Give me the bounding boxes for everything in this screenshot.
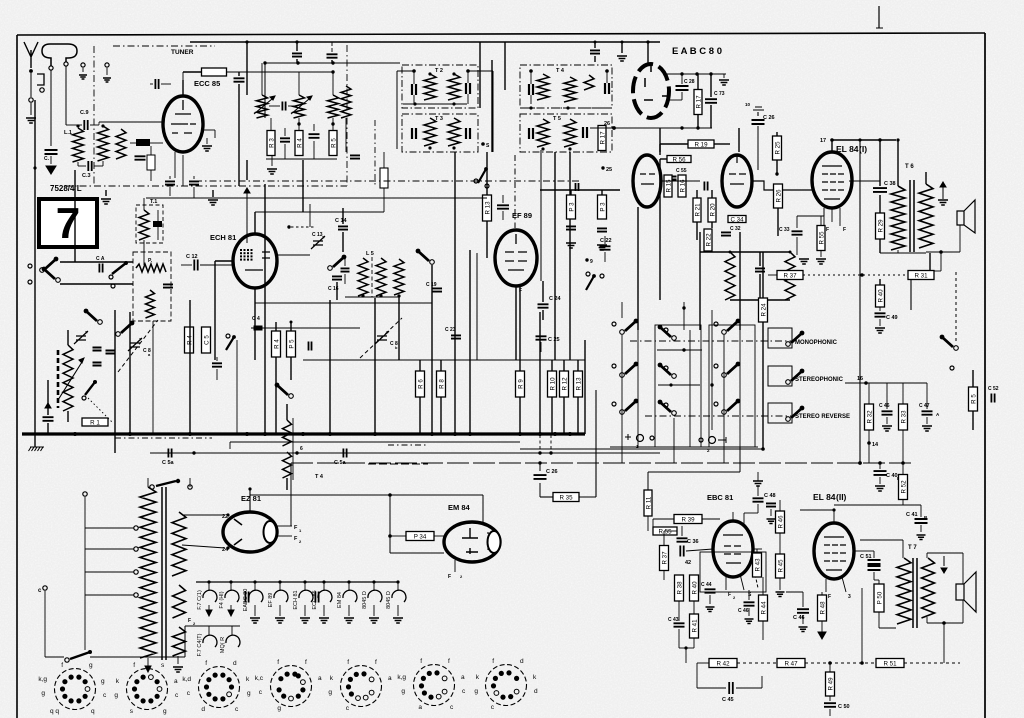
svg-text:R 48: R 48 — [820, 601, 827, 615]
svg-text:16: 16 — [857, 376, 863, 382]
wire mid down — [345, 118, 347, 152]
switch mid 230 — [226, 337, 234, 350]
resistor R.17 — [694, 90, 702, 115]
resistor R.48 — [818, 595, 827, 621]
ground C40B — [875, 486, 885, 491]
svg-text:R 39: R 39 — [681, 516, 695, 523]
svg-text:R 52: R 52 — [901, 480, 908, 494]
junction bus x455 — [453, 432, 457, 436]
capacitor C.34 — [728, 216, 746, 223]
resistor R.44 — [759, 595, 768, 621]
svg-text:C 5a: C 5a — [334, 460, 347, 466]
svg-text:f: f — [61, 662, 63, 669]
resistor R.41 — [690, 614, 699, 638]
wire v390 — [389, 495, 391, 553]
wire ta top — [659, 128, 661, 152]
tap rail left — [84, 497, 86, 650]
junction bus x247 — [245, 432, 249, 436]
svg-text:R 25: R 25 — [775, 141, 782, 155]
svg-text:R 6: R 6 — [418, 379, 425, 389]
svg-text:C A: C A — [96, 256, 105, 262]
capacitor C.11 — [280, 138, 290, 141]
svg-text:R 9: R 9 — [518, 379, 525, 389]
svg-text:C 19: C 19 — [426, 282, 437, 288]
svg-text:R 20: R 20 — [710, 203, 717, 217]
svg-text:R 55: R 55 — [658, 528, 672, 535]
junction — [33, 166, 36, 169]
wire ECC85 right — [201, 129, 215, 131]
wire tb top — [738, 128, 740, 152]
wire v505 — [504, 42, 506, 90]
capacitor in box — [163, 284, 173, 287]
svg-text:R 8: R 8 — [439, 379, 446, 389]
svg-text:F: F — [728, 592, 731, 598]
svg-text:EM 84: EM 84 — [448, 503, 471, 512]
switch matrix col1 — [620, 330, 625, 335]
tube ECC85 — [163, 96, 203, 152]
svg-text:C 33: C 33 — [779, 227, 790, 233]
resistor under T.3 — [380, 168, 388, 188]
ground R3 — [271, 156, 273, 166]
switch band 1 — [40, 268, 45, 273]
svg-text:26: 26 — [604, 121, 610, 127]
wire v700 — [699, 232, 701, 330]
svg-text:d: d — [534, 688, 538, 695]
svg-text:C 48: C 48 — [764, 493, 776, 499]
capacitor C.4a — [254, 327, 263, 330]
svg-text:STEREOPHONIC: STEREOPHONIC — [795, 377, 844, 383]
wire v130 — [129, 312, 131, 433]
svg-text:R 4: R 4 — [274, 339, 281, 349]
tube EM84 — [444, 522, 500, 562]
capacitor C.35 — [497, 205, 509, 208]
wire ebc bottom — [685, 648, 687, 663]
svg-text:k,g: k,g — [38, 676, 47, 683]
resistor R.22v — [704, 229, 712, 251]
long wire y495 — [250, 494, 483, 496]
wire t3 down2 — [383, 188, 385, 212]
wire v237 — [236, 340, 238, 433]
svg-text:EL 84: EL 84 — [813, 492, 836, 502]
wire r4 p5 — [275, 322, 277, 331]
svg-text:R 17: R 17 — [696, 95, 703, 109]
el84ii pins — [825, 579, 827, 592]
artifact bar — [876, 27, 883, 29]
resistor P.50 — [874, 584, 884, 612]
svg-text:C 52: C 52 — [988, 386, 999, 392]
svg-text:C.9: C.9 — [80, 110, 89, 116]
junction bus x570 — [568, 432, 572, 436]
ground p3a — [566, 243, 576, 248]
tube socket 4 — [255, 659, 322, 712]
coil osc var 2 — [294, 95, 305, 118]
wire t1 up — [143, 198, 145, 210]
resistor R.37b — [660, 546, 669, 571]
capacitor C.45 — [729, 682, 733, 694]
svg-text:R 26: R 26 — [776, 189, 783, 203]
dash v551 — [550, 435, 552, 453]
wire y463 left drop — [290, 463, 292, 526]
Q symbol right — [699, 438, 703, 442]
wire L5b top — [700, 251, 790, 253]
svg-text:9: 9 — [590, 259, 593, 265]
svg-text:q q: q q — [50, 708, 59, 715]
switch S mid — [328, 266, 333, 271]
wire EABC80 top — [647, 42, 649, 64]
tube EL84 II — [814, 523, 854, 579]
capacitor C.19 — [432, 288, 442, 291]
ground C46r — [882, 426, 892, 431]
matrix box 2 — [709, 325, 755, 447]
ground mid — [101, 199, 111, 204]
svg-text:R 45: R 45 — [778, 559, 785, 573]
tube socket 5 — [328, 659, 392, 712]
wire y464 dash — [368, 463, 428, 465]
tap 3 — [134, 570, 138, 574]
capacitor C.22 — [600, 246, 611, 249]
wire ebc left — [653, 518, 674, 520]
wire p3 tops — [570, 190, 572, 195]
T.2 capacitor right — [466, 83, 470, 94]
variable capacitor C.8a — [128, 338, 142, 351]
resistor R.26 — [775, 172, 778, 175]
tube EABC80 — [633, 64, 669, 118]
ground bus main — [22, 432, 585, 435]
wire L1 to tube — [98, 122, 100, 125]
resistor R.46 — [776, 511, 785, 533]
label 25 — [601, 166, 604, 169]
svg-text:g: g — [474, 688, 478, 695]
transformer T.7 primary — [897, 558, 911, 624]
svg-text:R 24: R 24 — [761, 303, 768, 317]
T.2 capacitor left — [412, 84, 416, 95]
capacitor C.27t — [590, 50, 600, 53]
svg-text:ECC 85: ECC 85 — [194, 79, 220, 88]
power transformer secondary HT — [172, 512, 186, 576]
pilot lamp 9 8045 D — [397, 582, 399, 591]
svg-text:a: a — [318, 675, 322, 682]
svg-text:R 44: R 44 — [761, 601, 768, 615]
tube socket 6 — [397, 658, 466, 711]
wire eabc y128 — [590, 127, 712, 129]
svg-text:L 5: L 5 — [366, 251, 374, 257]
tube EABC80 triode a — [633, 155, 661, 207]
wire v303 — [302, 160, 304, 212]
node S — [481, 142, 485, 146]
bus line 4 — [520, 448, 763, 450]
junction bus x520 — [518, 432, 522, 436]
cap C.7 top — [327, 54, 338, 57]
wire v480 — [479, 42, 481, 108]
coil L5b right — [785, 252, 795, 300]
second row lamp 1 — [208, 626, 210, 635]
border left — [16, 35, 18, 718]
wire c14 top — [342, 208, 344, 224]
IF transformer T.2 — [402, 65, 478, 108]
resistor P.5 — [287, 331, 296, 357]
svg-text:R 29: R 29 — [878, 219, 885, 233]
svg-text:g: g — [101, 678, 105, 685]
pilot lamp 4 EF 89 — [279, 582, 281, 591]
wire v860 long — [859, 140, 861, 463]
wire right vert long — [984, 33, 986, 718]
coil L5b left — [725, 252, 735, 300]
osc cap cluster — [93, 348, 102, 351]
wire v310 — [309, 204, 311, 227]
page box 7 — [39, 199, 97, 247]
resistor R.45 — [776, 554, 785, 578]
wire v432 — [431, 300, 433, 433]
dotted v right — [955, 272, 957, 344]
svg-text:R 19: R 19 — [694, 141, 708, 148]
svg-text:F: F — [828, 594, 831, 600]
wire v375 — [374, 298, 376, 433]
svg-text:ECH 81: ECH 81 — [293, 590, 299, 609]
capacitor C.44 — [705, 589, 716, 592]
resistor R.25 — [773, 136, 782, 160]
junction bus x375 — [373, 432, 377, 436]
capacitor C.1 — [45, 150, 58, 154]
EZ81 leads F — [277, 525, 292, 527]
resistor P.34 — [406, 532, 434, 541]
bus line 3 — [150, 452, 660, 454]
wire y72 — [226, 71, 333, 73]
capacitor C.30 — [755, 268, 765, 271]
capacitor dark below tube — [136, 139, 150, 146]
wire y212 — [255, 211, 384, 213]
wire EM84 down — [454, 560, 456, 572]
svg-text:R 11: R 11 — [646, 496, 653, 509]
capacitor C.52r — [991, 394, 994, 403]
svg-text:f: f — [375, 659, 377, 666]
wire t1 top — [286, 404, 288, 420]
svg-text:C 5: C 5 — [204, 335, 211, 345]
wire c38 top — [879, 140, 881, 186]
ground p3b — [597, 245, 607, 250]
wire r26 bot — [777, 208, 779, 236]
T.3 capacitor right — [466, 128, 470, 139]
wire bus gnd — [34, 434, 36, 447]
junction bus x540 — [538, 432, 542, 436]
second row lamp 2 — [231, 626, 233, 635]
resistor R.38 — [675, 575, 684, 601]
tube EL84 I — [812, 152, 852, 208]
wire loop left down — [50, 70, 52, 146]
coil L2b — [116, 129, 126, 159]
trimmer C.5o — [74, 331, 88, 344]
wire c1 top — [261, 63, 263, 95]
wire v492 — [491, 60, 493, 152]
resistor R.31h — [908, 271, 934, 280]
svg-text:C 34: C 34 — [730, 216, 744, 223]
svg-text:C 5a: C 5a — [162, 460, 175, 466]
svg-text:TUNER: TUNER — [171, 49, 194, 56]
resistor R.16 — [678, 175, 686, 197]
svg-text:MQ( R: MQ( R — [220, 637, 226, 653]
svg-text:g: g — [114, 692, 118, 699]
coil L.5 left — [358, 258, 368, 296]
svg-text:a: a — [418, 704, 422, 711]
wire r25 top — [776, 132, 778, 136]
wire rg5 — [563, 397, 565, 433]
svg-text:T 4: T 4 — [315, 474, 324, 480]
svg-text:C 44: C 44 — [701, 582, 712, 588]
switch right margin — [954, 346, 959, 351]
coil osc var 4 — [341, 86, 351, 118]
wire v190 — [189, 300, 191, 433]
arrow coil 1 — [254, 99, 272, 114]
svg-text:P 3: P 3 — [569, 202, 576, 212]
wire r21 top — [696, 190, 698, 198]
wire EZ81 top — [249, 489, 251, 512]
wire r19 r56 — [660, 143, 688, 145]
resistor R.55el — [817, 226, 825, 251]
svg-text:P 50: P 50 — [877, 591, 884, 604]
EBC81 pins below — [725, 576, 727, 590]
horizontal wire y360 — [303, 359, 585, 361]
IF transformer T.4 — [520, 65, 612, 108]
coil pack box — [133, 252, 171, 321]
switch S mid2 — [430, 260, 435, 265]
junction bus x303 — [301, 432, 305, 436]
ground C47A — [922, 426, 932, 431]
junction bus x75 — [73, 432, 77, 436]
svg-text:R 31: R 31 — [914, 272, 928, 279]
capacitor C.38 — [873, 188, 887, 192]
capacitor C.4 — [155, 79, 158, 89]
coil L.4a horizontal — [136, 264, 166, 272]
pilot lamp 3 EABC 80 — [254, 582, 256, 591]
svg-text:C.: C. — [44, 156, 50, 162]
svg-text:F: F — [826, 227, 829, 233]
svg-text:R 38: R 38 — [677, 581, 684, 595]
arrow down — [145, 666, 151, 672]
wire triode link — [661, 180, 700, 182]
svg-text:g: g — [401, 688, 405, 695]
ground T6 arrow — [942, 186, 944, 199]
capacitor C.31 — [704, 182, 707, 191]
wire T6 bottom — [880, 252, 926, 254]
resistor R.47 — [777, 659, 805, 668]
ground arrow C1 — [46, 166, 56, 174]
wire r17 top — [697, 74, 699, 90]
AVC dash line — [195, 180, 580, 182]
wire t3 down — [383, 152, 385, 168]
bus line 2 — [230, 441, 520, 443]
T.2 right wire — [492, 71, 494, 152]
T.2 left bracket wire — [396, 71, 398, 149]
resistor group R.12 — [560, 371, 569, 397]
resistor R.39 — [674, 515, 702, 524]
ground t7 arrow — [943, 556, 945, 566]
svg-text:P 3: P 3 — [600, 202, 607, 212]
Q symbol left — [625, 434, 631, 440]
wire y383 — [845, 382, 927, 384]
gang dash vertical — [374, 120, 376, 186]
wire v455 — [454, 152, 456, 433]
speaker 2 — [956, 572, 976, 612]
svg-text:R 22: R 22 — [706, 233, 713, 247]
svg-text:C.3: C.3 — [82, 173, 91, 179]
svg-text:f: f — [492, 658, 494, 665]
svg-text:R 12: R 12 — [562, 377, 569, 391]
capacitor C.53 — [766, 503, 776, 506]
wire antenna down — [30, 73, 32, 97]
ground C33 — [799, 259, 809, 264]
svg-text:k,d: k,d — [182, 676, 191, 683]
svg-text:3: 3 — [848, 594, 851, 600]
wire osc1 — [60, 261, 133, 263]
heater rail — [196, 581, 399, 583]
wire v555 — [554, 152, 556, 360]
capacitor C.46r — [882, 411, 893, 414]
junction bus x432 — [430, 432, 434, 436]
svg-text:f: f — [205, 660, 207, 667]
capacitor near P3 — [576, 183, 579, 191]
wire EZ81 24 — [182, 545, 225, 548]
junction bus x330 — [328, 432, 332, 436]
svg-text:g: g — [163, 708, 167, 715]
arrow C2 — [45, 403, 51, 408]
terminal b — [81, 63, 85, 67]
tube EABC80 triode b — [722, 155, 752, 207]
svg-text:T 7: T 7 — [908, 545, 917, 551]
svg-text:8045 D: 8045 D — [362, 591, 368, 609]
wire top rail right — [480, 41, 660, 43]
power transformer core — [161, 487, 163, 660]
ground EBC81 top — [732, 512, 734, 521]
svg-text:C 26: C 26 — [763, 115, 775, 121]
capacitor C.37 — [680, 546, 683, 557]
svg-text:R 4: R 4 — [297, 138, 304, 148]
capacitor C.17 dark — [212, 363, 222, 366]
resistor R.49 — [826, 672, 835, 696]
wire v596 — [595, 390, 597, 497]
switch osc low — [85, 382, 95, 395]
svg-text:F.7 C4(T): F.7 C4(T) — [197, 633, 203, 656]
T.4 capacitor left — [529, 84, 533, 95]
wire r29 bot — [879, 239, 881, 253]
capacitor T.1 tuning — [153, 221, 162, 227]
pilot lamp 6 ECC 85 — [323, 582, 325, 591]
svg-text:10: 10 — [745, 102, 751, 107]
wire speaker2 down — [962, 600, 964, 623]
svg-text:C 46: C 46 — [879, 403, 890, 409]
gang dashes — [118, 320, 158, 372]
T.3 capacitor left — [412, 128, 416, 139]
svg-text:C 25: C 25 — [548, 337, 560, 343]
ground eabc — [723, 74, 725, 78]
wire loop right down — [65, 66, 67, 125]
wire speaker1 — [959, 225, 961, 252]
svg-text:C 13: C 13 — [312, 232, 323, 238]
svg-text:F: F — [188, 618, 191, 624]
wire el84 bottom pins — [823, 208, 825, 226]
resistor R.5r — [969, 387, 978, 411]
capacitor C.16 — [332, 276, 342, 279]
wire v911 — [910, 270, 912, 310]
wire v75 — [74, 170, 76, 262]
wire cathode y216 — [797, 215, 824, 217]
capacitor C.12 — [194, 260, 197, 271]
switch matrix col2 — [672, 336, 677, 341]
wire r3 top — [270, 118, 272, 130]
svg-text:C 16: C 16 — [328, 286, 339, 292]
svg-text:C 4: C 4 — [252, 316, 260, 322]
wire t6 sec top — [925, 172, 927, 184]
coil L.5 right — [394, 259, 404, 295]
svg-text:17: 17 — [820, 138, 826, 144]
